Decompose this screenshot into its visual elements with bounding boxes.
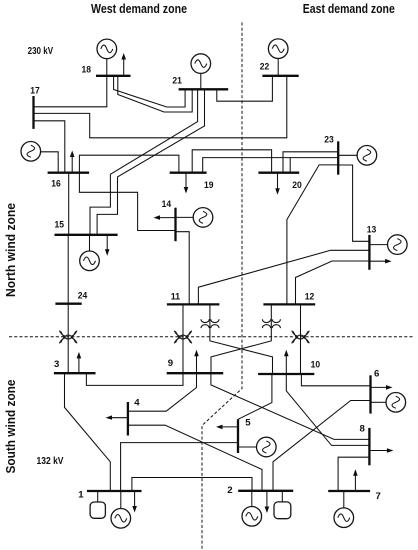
wire 2-4: [128, 425, 262, 491]
load arrow bus 15: [105, 235, 110, 256]
wire 11-14: [176, 232, 190, 305]
bus 21: [179, 88, 229, 90]
storage unit at bus 2: [274, 491, 291, 519]
wire 8-10: [286, 374, 369, 445]
transformer X symbol on 9-11: [174, 331, 192, 344]
bus 22: [262, 75, 298, 77]
wire 7-8: [338, 457, 369, 491]
svg-text:230 kV: 230 kV: [28, 46, 54, 57]
bus 6: [369, 375, 371, 413]
wire 11-13: [198, 250, 369, 304]
svg-text:18: 18: [82, 65, 92, 76]
generator G22: [268, 39, 288, 76]
svg-text:21: 21: [172, 76, 182, 87]
wire 6-10: [301, 374, 370, 386]
svg-text:East demand zone: East demand zone: [303, 1, 395, 16]
svg-text:5: 5: [245, 418, 251, 429]
storage unit at bus 1: [90, 491, 105, 518]
bus 3: [54, 372, 96, 374]
wire 16-19: [79, 155, 178, 173]
load arrow bus 2: [265, 491, 270, 513]
bus 7: [328, 490, 370, 492]
svg-text:6: 6: [374, 369, 379, 380]
generator G23: [338, 146, 377, 166]
load arrow bus 18: [121, 53, 126, 76]
wire 4-9: [128, 373, 197, 411]
generator G14: [176, 208, 213, 228]
svg-text:22: 22: [260, 62, 270, 73]
wire 1-3: [65, 373, 111, 491]
svg-text:North wind zone: North wind zone: [3, 203, 18, 297]
wire 15-24: [67, 235, 69, 304]
bus 1: [87, 490, 142, 492]
generator G13: [369, 235, 407, 255]
bus 18: [96, 75, 131, 77]
load arrow bus 8: [369, 448, 393, 453]
svg-text:16: 16: [51, 179, 61, 190]
wire 15-21 circuit B: [97, 89, 204, 235]
bus 14: [174, 208, 176, 242]
bus 20: [258, 172, 299, 174]
wire 16-14: [79, 173, 175, 231]
bus 5: [237, 419, 239, 453]
wire 18-21 circuit A: [114, 76, 186, 107]
load arrow bus 16: [70, 151, 75, 173]
generator G2: [242, 491, 262, 526]
wire transformer branch 9-11: [182, 304, 184, 373]
bus 8: [368, 428, 370, 465]
wire 19-20 circuit A: [192, 150, 271, 173]
wire 17-22: [34, 76, 287, 138]
generator G7: [334, 491, 354, 528]
svg-text:24: 24: [78, 290, 88, 301]
wire transformer branch 3-24: [67, 304, 69, 374]
bus 12: [263, 303, 315, 305]
wire 5-10: [238, 374, 272, 419]
wire 17-16: [34, 121, 65, 173]
bus 24: [55, 303, 81, 305]
load arrow bus 1: [132, 491, 137, 513]
generator G1: [111, 491, 131, 528]
svg-text:23: 23: [324, 135, 334, 146]
generator G21: [191, 54, 211, 90]
svg-text:7: 7: [376, 491, 381, 502]
wire 1-5: [121, 443, 238, 491]
generator G6: [371, 393, 406, 413]
load arrow bus 6: [371, 385, 393, 390]
svg-text:10: 10: [311, 359, 321, 370]
wire 3-9: [86, 373, 183, 385]
wire 8-9: [211, 373, 370, 439]
svg-text:4: 4: [134, 397, 140, 408]
transformer X symbol on 3-24: [59, 331, 77, 344]
bus 4: [127, 402, 129, 436]
bus 13: [368, 235, 370, 270]
bus 16: [48, 172, 90, 174]
wire 15-16: [68, 173, 70, 235]
wire transformer branch 10-11: [210, 304, 273, 374]
bus 9: [167, 372, 224, 374]
bus 23: [337, 141, 339, 174]
wire 13-23: [338, 165, 369, 241]
wire 1-2: [132, 478, 252, 492]
bus 15: [55, 234, 118, 236]
svg-text:9: 9: [168, 358, 173, 369]
svg-text:132 kV: 132 kV: [37, 456, 64, 467]
generator G18: [97, 39, 117, 76]
bus 11: [167, 303, 220, 305]
load arrow bus 3: [77, 352, 82, 373]
generator G15: [80, 235, 100, 271]
load arrow bus 5: [216, 425, 238, 430]
svg-text:13: 13: [367, 225, 377, 236]
svg-text:11: 11: [171, 292, 181, 303]
svg-text:South wind zone: South wind zone: [3, 380, 18, 474]
svg-text:2: 2: [227, 485, 232, 496]
load arrow bus 14: [154, 215, 176, 220]
wire 19-20 and 20-23 circuit B: [203, 158, 339, 173]
wire 12-13: [296, 261, 370, 304]
transformer X symbol on 10-12: [292, 331, 310, 344]
bus 2: [238, 490, 293, 492]
wire transformer branch 10-12: [300, 304, 302, 374]
transformer winding symbol on 10-11: [201, 319, 219, 328]
zone boundary dashed vertical (demand zones): [202, 22, 242, 550]
svg-text:12: 12: [305, 292, 315, 303]
wire 12-23: [287, 165, 338, 305]
bus 10: [258, 373, 314, 375]
svg-text:14: 14: [162, 199, 172, 210]
wire 20-23 circuit A: [283, 152, 338, 173]
load arrow bus 13: [369, 259, 391, 264]
load arrow bus 19: [184, 173, 189, 194]
load arrow bus 10: [284, 350, 289, 374]
wire 2-6: [273, 401, 371, 491]
wire transformer branch 9-12: [211, 304, 271, 373]
bus 17: [32, 96, 34, 129]
load arrow bus 20: [275, 173, 280, 195]
transformer winding symbol on 9-12: [262, 319, 280, 328]
svg-text:West demand zone: West demand zone: [91, 1, 187, 16]
svg-text:3: 3: [54, 359, 59, 370]
svg-text:8: 8: [360, 424, 366, 435]
svg-text:15: 15: [55, 220, 65, 231]
wire 18-21 circuit B: [118, 76, 192, 112]
svg-text:1: 1: [78, 489, 84, 500]
generator G16: [21, 142, 58, 173]
wire 17-18: [34, 76, 107, 107]
load arrow bus 9: [194, 350, 199, 373]
svg-text:20: 20: [292, 180, 302, 191]
svg-text:17: 17: [30, 86, 40, 97]
svg-text:19: 19: [204, 180, 214, 191]
load arrow bus 4: [106, 415, 128, 419]
zone boundary dashed horizontal (wind zones): [9, 336, 414, 338]
wire 15-21 circuit A: [90, 89, 198, 235]
load arrow bus 7: [353, 469, 358, 491]
bus 19: [170, 172, 207, 174]
generator G5: [238, 437, 276, 457]
wire 21-22: [217, 76, 273, 101]
